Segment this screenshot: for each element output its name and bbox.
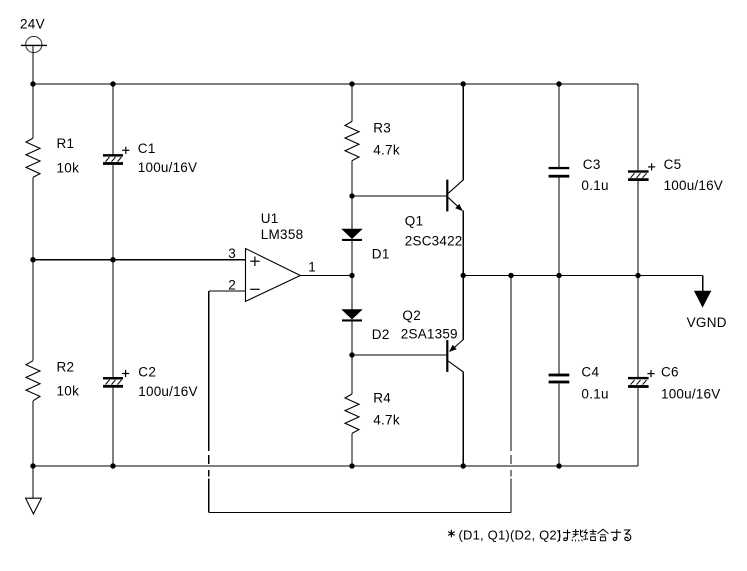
note text kanji netsu — [572, 529, 584, 541]
svg-text:C2: C2 — [138, 364, 156, 379]
wire R2 to bottom bus — [32, 401, 34, 466]
wire C1 to divider node — [112, 165, 114, 377]
note text kanji gou — [598, 529, 609, 541]
junction op-amp output node — [349, 273, 354, 278]
junction top bus C1 — [110, 81, 115, 86]
svg-text:100u/16V: 100u/16V — [664, 178, 723, 193]
wire VGND row to Q2 emitter — [462, 276, 464, 341]
wire 24V terminal to top bus — [32, 45, 34, 84]
wire VGND row — [463, 275, 702, 277]
wire C6 to bottom bus — [637, 388, 639, 466]
plus sign C2 — [122, 370, 129, 377]
wire left bus above R1 — [32, 84, 34, 138]
junction bottom bus left rail — [30, 463, 35, 468]
junction bottom bus Q2 collector — [461, 463, 466, 468]
wire divider node to R2 — [32, 260, 34, 361]
svg-text:C4: C4 — [581, 365, 599, 380]
capacitor C2 — [103, 377, 123, 388]
junction bottom bus R4 — [349, 463, 354, 468]
svg-text:10k: 10k — [57, 160, 80, 175]
svg-text:VGND: VGND — [687, 315, 727, 330]
svg-text:24V: 24V — [20, 17, 45, 32]
capacitor C3 — [549, 167, 570, 178]
svg-text:R3: R3 — [373, 121, 391, 136]
wire C5 to VGND row and C6 — [637, 181, 639, 377]
note text kana ru — [624, 530, 631, 541]
note text kanji ketsu — [584, 529, 597, 540]
svg-text:U1: U1 — [261, 211, 279, 226]
junction divider node C1 C2 — [110, 257, 115, 262]
svg-text:C6: C6 — [661, 365, 679, 380]
junction VGND row C5 C6 — [635, 273, 640, 278]
svg-text:4.7k: 4.7k — [373, 143, 400, 158]
wire node C to Q2 base — [352, 354, 446, 356]
power terminal 24V — [21, 36, 47, 52]
wire feedback left vertical lower — [208, 478, 210, 512]
wire C3 top lead — [558, 84, 560, 167]
VGND arrow — [694, 291, 711, 308]
wire R3 to node A — [351, 161, 353, 229]
wire noninverting input row — [33, 259, 246, 261]
svg-text:10k: 10k — [57, 384, 80, 399]
junction node C — [349, 352, 354, 357]
wire D1 to output node — [351, 241, 353, 310]
svg-text:R2: R2 — [57, 359, 75, 374]
svg-text:D1: D1 — [372, 247, 390, 262]
wire feedback right vertical upper — [510, 276, 512, 451]
wire node A to Q1 base — [352, 195, 446, 197]
svg-text:(D1, Q1)(D2, Q2): (D1, Q1)(D2, Q2) — [459, 528, 562, 543]
wire feedback left vertical upper — [208, 291, 210, 451]
wire Q2 collector to bottom bus — [462, 372, 464, 466]
wire C4 to bottom bus — [558, 383, 560, 466]
wire bottom bus to ground — [32, 466, 34, 498]
junction VGND row C3 C4 — [556, 273, 561, 278]
junction top bus left rail — [30, 81, 35, 86]
note text kana su — [611, 529, 621, 540]
resistor R3 — [345, 121, 359, 160]
resistor R1 — [26, 138, 40, 177]
resistor R4 — [345, 394, 359, 433]
wire x352 top bus to R3 — [351, 84, 353, 121]
junction divider node R1 R2 — [30, 257, 35, 262]
svg-text:C1: C1 — [138, 141, 156, 156]
wire inverting input row — [209, 290, 246, 292]
capacitor C5 — [628, 170, 649, 181]
svg-text:100u/16V: 100u/16V — [661, 387, 720, 402]
svg-text:LM358: LM358 — [261, 227, 304, 242]
svg-text:Q1: Q1 — [405, 214, 424, 229]
wire VGND drop — [702, 276, 704, 292]
wire top bus — [33, 83, 638, 85]
note text kanji ha — [560, 530, 571, 542]
wire feedback bottom — [209, 511, 511, 513]
svg-text:D2: D2 — [372, 327, 390, 342]
svg-text:100u/16V: 100u/16V — [138, 160, 197, 175]
junction bottom bus C4 — [556, 463, 561, 468]
wire R4 to bottom bus — [351, 433, 353, 466]
transistor Q2 — [446, 340, 463, 373]
svg-text:3: 3 — [228, 246, 236, 261]
wire feedback left vertical dashed crossing — [208, 455, 210, 476]
wire feedback right vertical lower — [510, 478, 512, 512]
wire C3 to VGND row and C4 — [558, 178, 560, 374]
svg-text:1: 1 — [308, 259, 316, 274]
svg-text:4.7k: 4.7k — [373, 413, 400, 428]
wire D2 to node C — [351, 322, 353, 395]
wire feedback right vertical dashed crossing — [510, 455, 512, 476]
svg-text:C3: C3 — [583, 157, 601, 172]
junction VGND row feedback — [508, 273, 513, 278]
svg-text:C5: C5 — [664, 157, 682, 172]
svg-text:Q2: Q2 — [402, 308, 421, 323]
svg-text:2SA1359: 2SA1359 — [401, 326, 458, 341]
svg-text:100u/16V: 100u/16V — [138, 384, 197, 399]
svg-text:2: 2 — [228, 278, 236, 293]
junction node A — [349, 193, 354, 198]
wire R1 to divider node — [32, 177, 34, 259]
capacitor C6 — [628, 377, 649, 388]
capacitor C1 — [103, 154, 123, 165]
wire bottom bus — [33, 465, 638, 467]
wire Q1 emitter to VGND row — [462, 211, 464, 276]
junction VGND row emitters — [461, 273, 466, 278]
resistor R2 — [26, 361, 40, 401]
junction top bus C3 — [556, 81, 561, 86]
wire C1 top lead — [112, 84, 114, 154]
svg-text:R1: R1 — [57, 136, 75, 151]
wire C5 top lead — [637, 84, 639, 171]
junction top bus R3 — [349, 81, 354, 86]
svg-text:0.1u: 0.1u — [581, 178, 608, 193]
ground — [26, 498, 42, 514]
op-amp U1 — [246, 249, 301, 302]
plus sign C6 — [647, 370, 654, 377]
diode D2 — [342, 310, 362, 322]
note asterisk — [448, 530, 454, 537]
svg-text:R4: R4 — [373, 391, 391, 406]
svg-text:0.1u: 0.1u — [581, 387, 608, 402]
transistor Q1 — [446, 180, 463, 212]
diode D1 — [342, 229, 362, 241]
wire Q1 collector — [462, 84, 464, 180]
wire op-amp output — [300, 275, 352, 277]
wire C2 to bottom bus — [112, 388, 114, 466]
plus sign C1 — [122, 147, 129, 154]
junction bottom bus C2 — [110, 463, 115, 468]
plus sign C5 — [648, 163, 655, 170]
svg-text:2SC3422: 2SC3422 — [405, 233, 463, 248]
capacitor C4 — [549, 374, 570, 384]
junction top bus Q1 collector — [461, 81, 466, 86]
